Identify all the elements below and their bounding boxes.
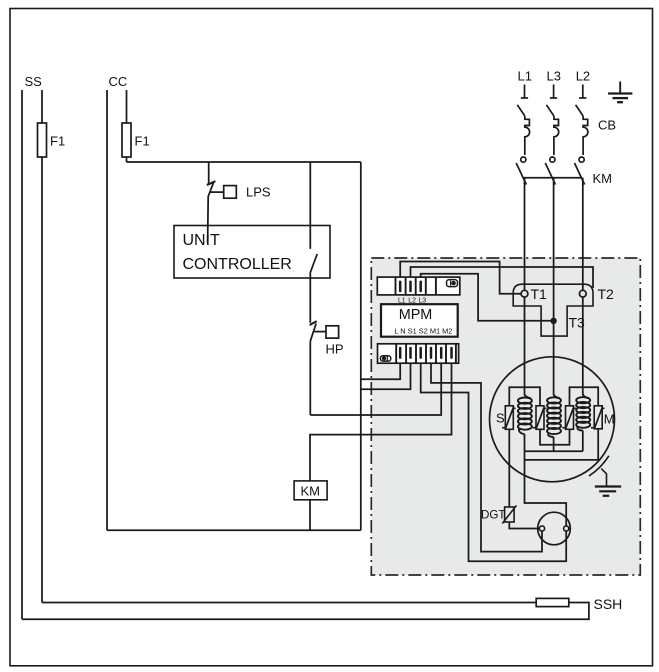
svg-text:L2: L2 [408, 297, 416, 304]
svg-text:M: M [604, 412, 615, 427]
svg-text:L3: L3 [547, 69, 561, 84]
svg-text:CC: CC [109, 74, 128, 89]
svg-text:F1: F1 [135, 134, 150, 149]
svg-text:KM: KM [301, 484, 321, 499]
svg-text:HP: HP [326, 342, 344, 357]
svg-text:T2: T2 [598, 286, 615, 302]
svg-text:KM: KM [593, 171, 613, 186]
svg-text:T1: T1 [531, 286, 548, 302]
svg-text:MPM: MPM [399, 307, 433, 323]
svg-text:L2: L2 [576, 69, 590, 84]
svg-text:F1: F1 [50, 134, 65, 149]
svg-text:LPS: LPS [246, 185, 271, 200]
svg-text:S: S [496, 411, 505, 426]
svg-text:T3: T3 [569, 315, 586, 331]
svg-text:SSH: SSH [594, 596, 623, 612]
svg-text:CONTROLLER: CONTROLLER [183, 256, 292, 273]
svg-text:DGT: DGT [481, 509, 505, 522]
svg-text:SS: SS [25, 74, 43, 89]
svg-text:CB: CB [598, 118, 616, 133]
svg-text:L1: L1 [398, 297, 406, 304]
svg-text:L N S1 S2 M1 M2: L N S1 S2 M1 M2 [394, 326, 452, 335]
svg-text:L3: L3 [418, 297, 426, 304]
svg-text:UNIT: UNIT [183, 232, 221, 249]
svg-text:L1: L1 [518, 69, 532, 84]
